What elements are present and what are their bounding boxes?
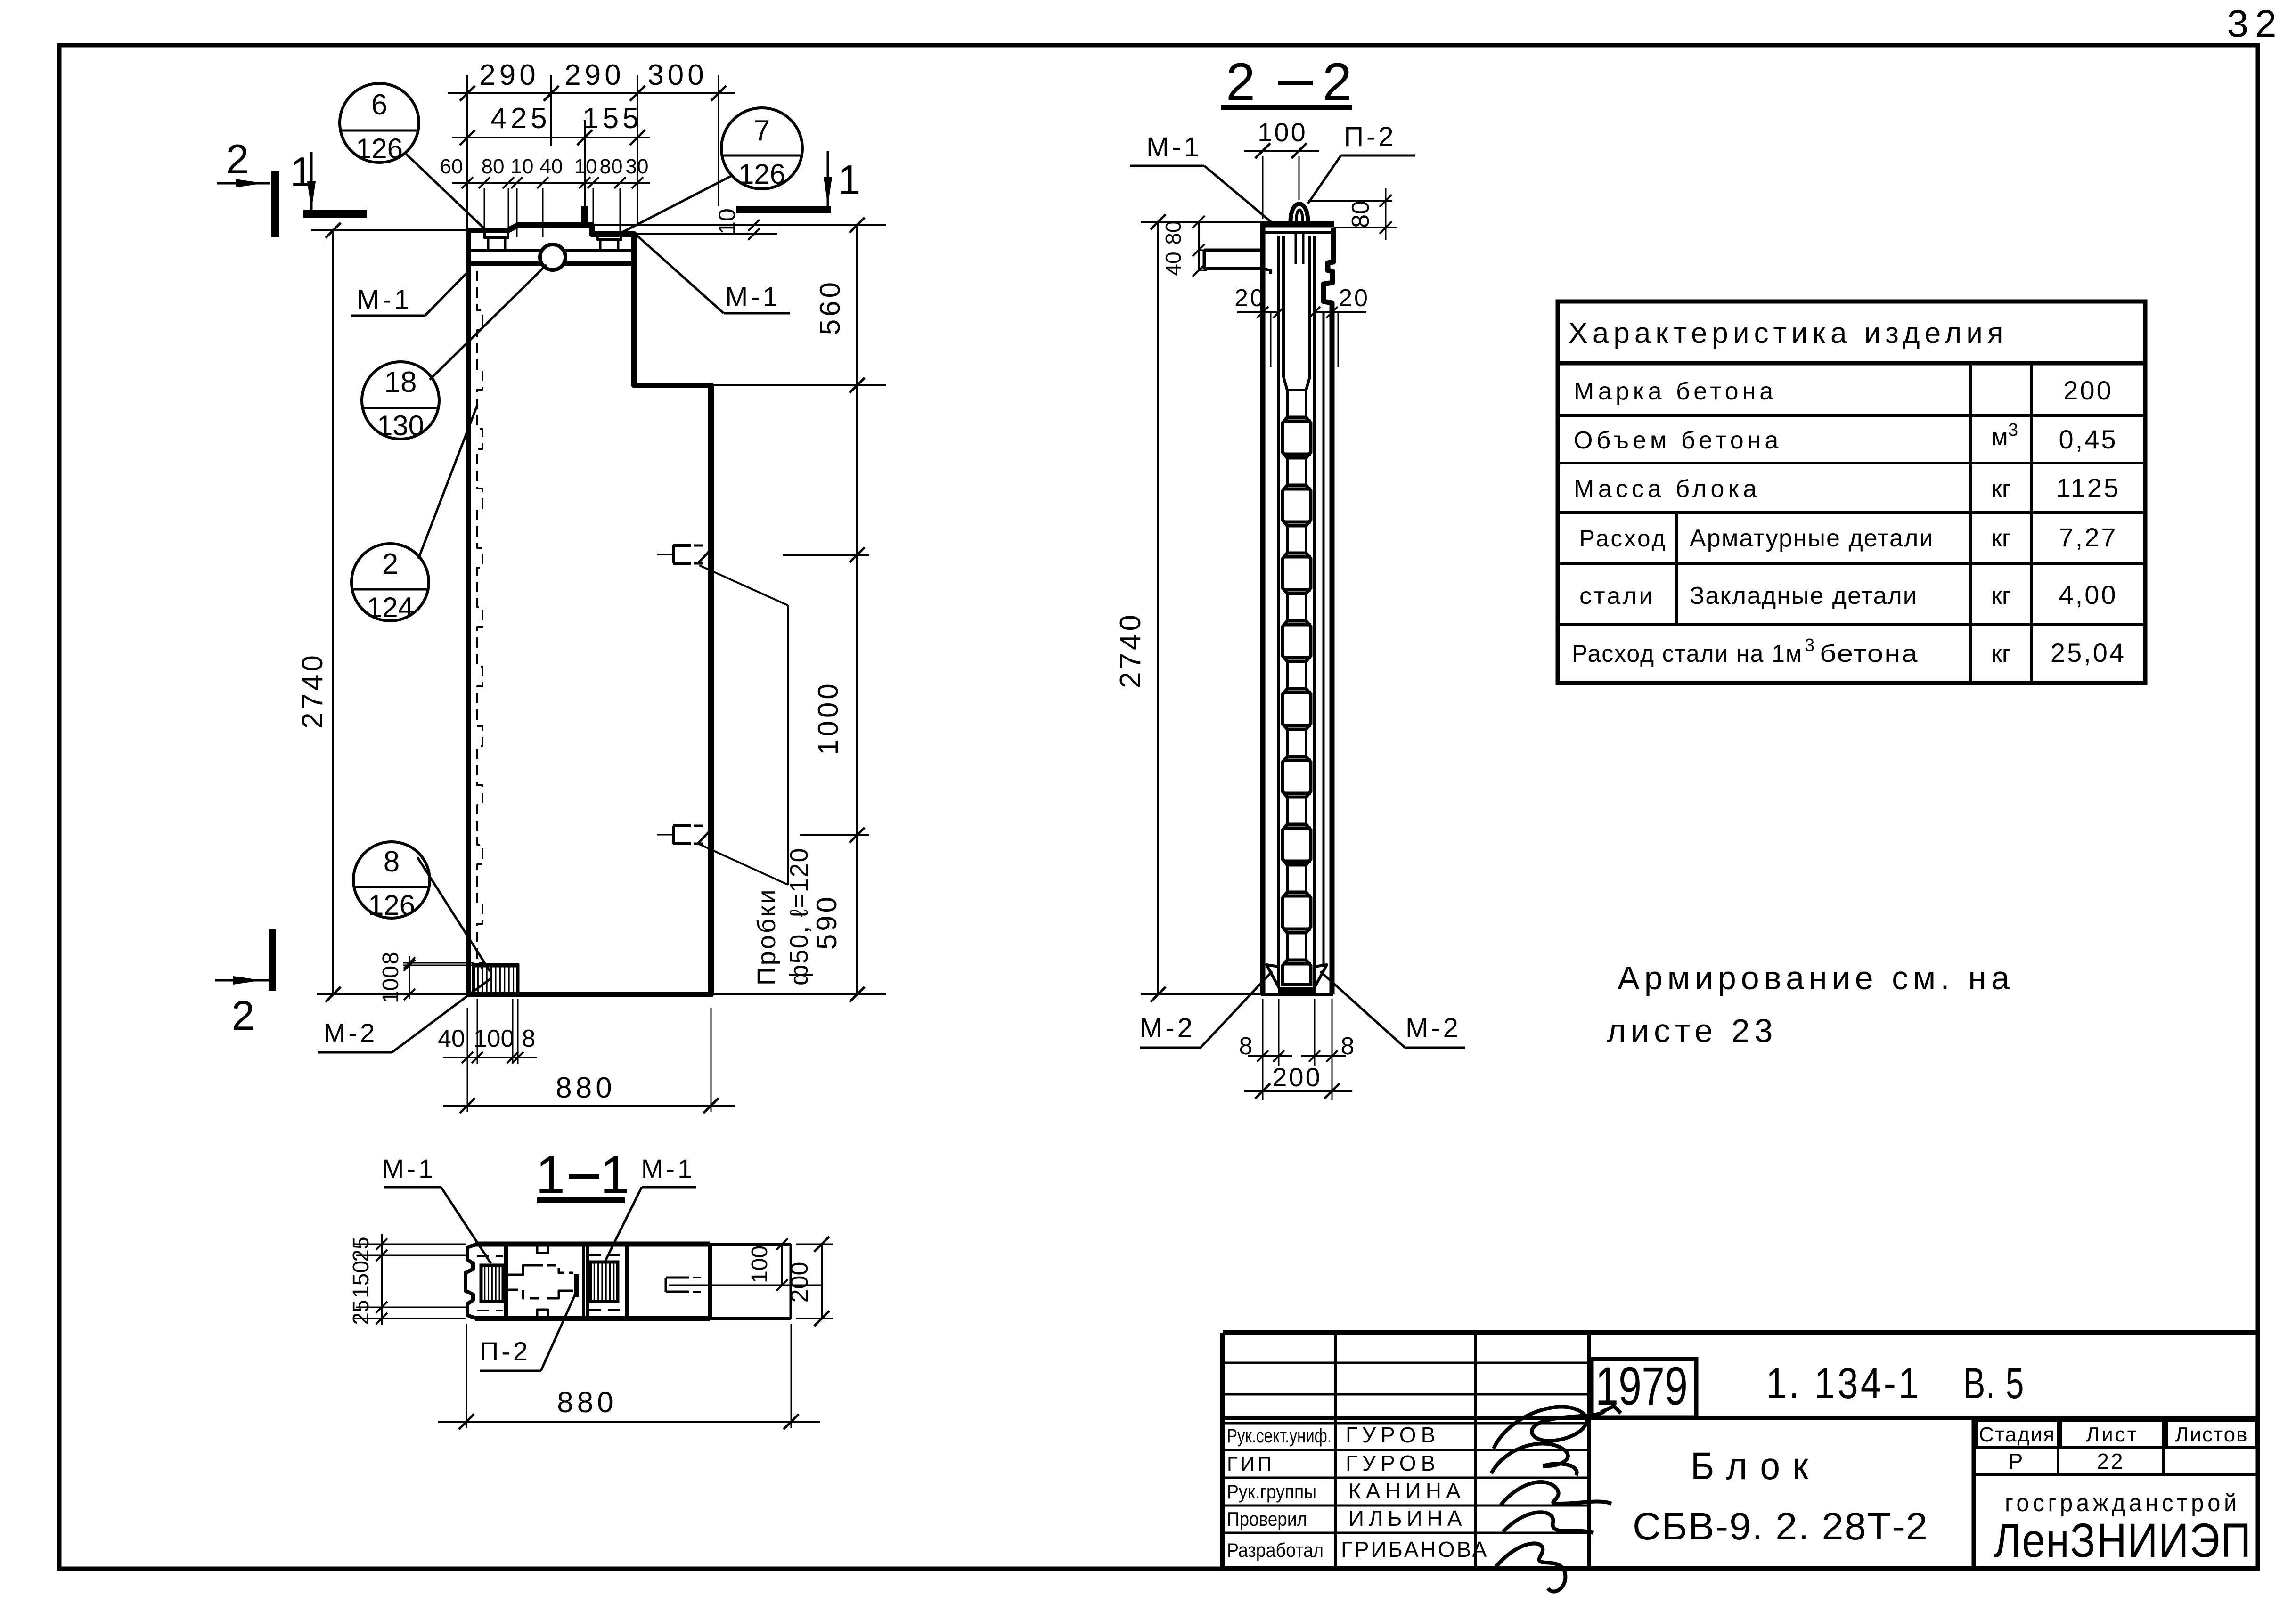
svg-text:Масса блока: Масса блока	[1574, 475, 1760, 503]
svg-text:880: 880	[556, 1072, 615, 1104]
svg-text:ГИП: ГИП	[1227, 1453, 1275, 1475]
svg-text:Лист: Лист	[2086, 1423, 2139, 1446]
front view: lifting loop circle	[540, 244, 565, 270]
svg-text:200: 200	[1272, 1062, 1322, 1092]
section 2-2: side arm (M-1 console)	[1204, 249, 1263, 252]
title block column line labels/names	[1334, 1333, 1337, 1569]
svg-text:20: 20	[1339, 285, 1370, 312]
section 2-2: column inner right line	[1313, 236, 1316, 966]
table column line units	[1969, 363, 1972, 683]
svg-text:кг: кг	[1991, 475, 2011, 503]
svg-text:8: 8	[378, 952, 403, 965]
section 2-2: bottom cap (dark)	[1278, 987, 1316, 994]
section 1-1: inner divider lines	[504, 1246, 508, 1318]
section 1-1: dashes around right box	[589, 1254, 625, 1256]
svg-text:Блок: Блок	[1691, 1445, 1821, 1488]
svg-text:Марка бетона: Марка бетона	[1574, 378, 1777, 405]
section 2-2: bottom line	[1261, 993, 1333, 996]
svg-text:6: 6	[371, 89, 387, 121]
title block left edge	[1220, 1333, 1225, 1569]
section 1-1: top notch square	[537, 1244, 548, 1253]
svg-text:30: 30	[626, 155, 649, 178]
section 2-2 dims 20/20 walls	[1237, 311, 1280, 313]
svg-text:ГУРОВ: ГУРОВ	[1346, 1423, 1440, 1447]
svg-text:ф50, ℓ=120: ф50, ℓ=120	[785, 847, 813, 985]
front view: block outline	[468, 225, 711, 994]
section 2-2: top cap flange	[1262, 221, 1334, 228]
section 1-1 title underline	[537, 1197, 625, 1203]
svg-text:7: 7	[754, 114, 770, 147]
title block thick separator under 1979 row	[1223, 1416, 2258, 1420]
svg-text:124: 124	[367, 592, 414, 623]
svg-text:СБВ-9. 2. 28Т-2: СБВ-9. 2. 28Т-2	[1633, 1505, 1928, 1548]
svg-text:Рук.группы: Рук.группы	[1227, 1481, 1316, 1503]
svg-text:60: 60	[440, 155, 463, 178]
svg-text:1125: 1125	[2056, 473, 2120, 503]
svg-text:2: 2	[226, 136, 249, 182]
section marker 1 top-left: arrow line	[310, 152, 313, 210]
svg-text:П-2: П-2	[480, 1336, 531, 1366]
svg-text:2: 2	[1226, 52, 1255, 111]
svg-text:1979: 1979	[1595, 1356, 1688, 1416]
svg-text:126: 126	[738, 158, 785, 190]
svg-text:В. 5: В. 5	[1963, 1359, 2025, 1408]
front view: anchor hooks under slots	[487, 238, 490, 250]
front view: plug socket upper on right edge	[673, 544, 691, 547]
right dimension column 560/1000/590	[856, 225, 858, 994]
svg-text:П-2: П-2	[1344, 122, 1396, 152]
dim row 60/80/10/40/10/80/30	[452, 182, 650, 184]
svg-text:кг: кг	[1991, 640, 2011, 668]
svg-text:560: 560	[814, 279, 846, 335]
front view: dashed key joint line	[477, 271, 482, 968]
table column line values	[2030, 363, 2033, 683]
svg-text:80: 80	[600, 155, 623, 178]
svg-text:200: 200	[2063, 375, 2113, 405]
svg-text:880: 880	[557, 1386, 617, 1419]
svg-text:126: 126	[356, 133, 403, 164]
svg-text:Расход стали на 1м: Расход стали на 1м	[1572, 640, 1803, 668]
section 2-2: column left wall	[1260, 221, 1266, 994]
svg-text:Характеристика изделия: Характеристика изделия	[1569, 317, 2008, 350]
title block values row line	[1974, 1473, 2258, 1476]
section 2-2 dim 200 bottom	[1244, 1090, 1352, 1092]
section 1-1 dims 25/150/25 left	[381, 1234, 383, 1325]
title block column line signatures right	[1587, 1333, 1591, 1569]
title block column line names/signatures	[1474, 1333, 1477, 1569]
title block bottom border	[1223, 1566, 2258, 1571]
svg-text:1: 1	[838, 156, 861, 203]
svg-text:2: 2	[232, 992, 255, 1039]
section marker 2 bottom-left: arrow line	[215, 979, 269, 982]
svg-text:3: 3	[1805, 635, 1814, 655]
svg-text:300: 300	[647, 59, 707, 91]
section 2-2 dim 80 right of loop	[1308, 200, 1392, 202]
svg-text:М-1: М-1	[641, 1154, 695, 1183]
svg-text:Объем бетона: Объем бетона	[1574, 427, 1782, 454]
section 1-1: right M-1 hatched box	[590, 1262, 618, 1302]
title block small row lines top-left	[1223, 1362, 1589, 1364]
front view: top-left M-1 slot	[485, 231, 508, 238]
section 2-2: loop anchor tube	[1282, 236, 1285, 377]
svg-text:М-2: М-2	[324, 1018, 377, 1048]
svg-text:40: 40	[540, 155, 563, 178]
title block signatures scribble	[1494, 1406, 1621, 1449]
svg-text:130: 130	[377, 410, 424, 441]
svg-text:3: 3	[2008, 420, 2018, 440]
callout circle 8/126	[353, 842, 430, 918]
section 1-1: dashes around left box	[477, 1255, 503, 1257]
svg-text:ГУРОВ: ГУРОВ	[1346, 1451, 1440, 1475]
title block big cell divider vertical	[1972, 1418, 1976, 1569]
svg-text:2740: 2740	[296, 652, 329, 729]
svg-text:8: 8	[522, 1025, 536, 1052]
section 2-2: keyed core ladder	[1287, 390, 1306, 417]
title block staff section top line	[1223, 1422, 1589, 1425]
svg-text:20: 20	[1234, 285, 1266, 312]
section marker 2 bottom-left: thick bar	[269, 929, 276, 991]
svg-text:Проверил: Проверил	[1227, 1508, 1307, 1530]
section marker 1 top-right: arrow line	[827, 151, 829, 206]
svg-text:кг: кг	[1991, 525, 2011, 552]
svg-text:м: м	[1991, 423, 2008, 451]
svg-text:Арматурные детали: Арматурные детали	[1690, 525, 1934, 552]
section 2-2 dim 2740	[1157, 222, 1159, 994]
svg-text:25: 25	[349, 1300, 374, 1325]
front view: P-2 pin (black) on top	[581, 206, 588, 227]
svg-text:ЛенЗНИИЭП: ЛенЗНИИЭП	[1994, 1514, 2252, 1567]
svg-text:Пробки: Пробки	[752, 887, 781, 985]
svg-text:10: 10	[511, 155, 534, 178]
svg-text:Стадия: Стадия	[1979, 1423, 2055, 1446]
svg-text:25: 25	[349, 1237, 374, 1262]
section marker 2 top-left: arrow line	[217, 182, 270, 185]
svg-text:стали: стали	[1579, 583, 1655, 609]
svg-text:32: 32	[2227, 2, 2283, 45]
section 1-1 dim 880 bottom	[438, 1421, 820, 1423]
svg-text:155: 155	[582, 102, 642, 135]
svg-text:40: 40	[438, 1025, 465, 1052]
svg-text:Разработал: Разработал	[1227, 1539, 1324, 1561]
table header separator	[1558, 361, 2145, 366]
svg-text:10: 10	[714, 208, 740, 235]
section 1-1: bottom notch square	[537, 1310, 548, 1319]
section 1-1: right plain part	[710, 1243, 791, 1246]
svg-text:Расход: Расход	[1579, 525, 1667, 552]
svg-text:290: 290	[479, 59, 539, 91]
characteristics table outer box	[1558, 301, 2145, 683]
svg-text:25,04: 25,04	[2051, 638, 2126, 668]
svg-text:40: 40	[1161, 252, 1185, 276]
svg-text:М-1: М-1	[357, 285, 412, 315]
svg-text:госгражданстрой: госгражданстрой	[2005, 1490, 2240, 1517]
svg-text:1000: 1000	[812, 681, 844, 755]
svg-text:100: 100	[378, 966, 403, 1003]
svg-text:2: 2	[382, 548, 398, 580]
svg-text:М-2: М-2	[1140, 1013, 1195, 1043]
svg-text:200: 200	[786, 1262, 813, 1303]
svg-text:ИЛЬИНА: ИЛЬИНА	[1348, 1506, 1466, 1530]
svg-text:М-2: М-2	[1405, 1013, 1461, 1043]
callout circle 2/124	[351, 544, 429, 621]
svg-text:Р: Р	[2009, 1449, 2023, 1473]
svg-text:590: 590	[811, 894, 842, 950]
svg-text:8: 8	[1239, 1033, 1253, 1060]
svg-text:8: 8	[384, 846, 400, 878]
front view: plug socket lower on right edge	[673, 824, 691, 827]
section 2-2 dims 80/40 left	[1198, 222, 1200, 270]
front view: top-right M-1 slot	[598, 235, 621, 240]
section 1-1 dim 200 right	[821, 1244, 823, 1319]
section marker 1 top-left: thick bar	[303, 210, 367, 218]
svg-text:290: 290	[564, 59, 624, 91]
dim 880 bottom of front view	[443, 1105, 735, 1107]
dim row 290/290/300	[448, 92, 735, 94]
svg-text:100: 100	[747, 1246, 772, 1283]
dims 100/8 left of M-2 box	[409, 956, 410, 999]
svg-text:18: 18	[384, 366, 417, 399]
left dim 2740 of front view	[332, 230, 334, 994]
svg-text:10: 10	[574, 155, 597, 178]
svg-text:22: 22	[2097, 1449, 2124, 1473]
dims 40/100/8 under M-2 box	[443, 1057, 537, 1058]
svg-text:80: 80	[1161, 220, 1185, 244]
section 2-2: column inner left line	[1277, 236, 1280, 966]
svg-text:1: 1	[536, 1145, 565, 1204]
svg-text:80: 80	[482, 155, 505, 178]
svg-text:8: 8	[1341, 1033, 1355, 1060]
section marker 1 top-right: thick bar	[736, 206, 831, 213]
section 2-2: bottom M-2 wedge right	[1315, 965, 1327, 987]
svg-text:М-1: М-1	[382, 1154, 436, 1183]
callout circle 7/126	[721, 108, 802, 189]
section 2-2 title underline	[1221, 105, 1352, 110]
front view: horizontal joint band upper line	[468, 249, 634, 252]
callout circle 18/130	[362, 362, 439, 439]
section 2-2: P-2 lifting loop	[1291, 204, 1308, 222]
section 2-2: column right wall with notches	[1324, 228, 1333, 994]
svg-text:80: 80	[1347, 201, 1374, 228]
svg-text:7,27: 7,27	[2059, 522, 2118, 552]
svg-text:425: 425	[490, 102, 550, 135]
section 2-2: bottom M-2 wedge left	[1266, 965, 1279, 987]
svg-text:М-1: М-1	[1146, 132, 1202, 163]
table row lines	[1558, 414, 2145, 417]
section 1-1: left M-1 hatched box	[481, 1265, 503, 1302]
svg-text:100: 100	[1258, 117, 1307, 147]
section 1-1: middle meander bottom	[508, 1290, 543, 1298]
svg-text:2: 2	[1323, 52, 1352, 111]
svg-text:0,45: 0,45	[2059, 424, 2118, 454]
section 1-1: middle meander top	[508, 1265, 543, 1275]
svg-text:126: 126	[368, 889, 415, 921]
svg-text:кг: кг	[1991, 582, 2011, 610]
section 2-2 dims 8/8 bottom	[1262, 999, 1264, 1100]
front view: M-2 embed hatched box at bottom	[474, 965, 518, 994]
svg-text:4,00: 4,00	[2059, 580, 2118, 610]
svg-text:100: 100	[474, 1025, 515, 1052]
svg-text:Листов: Листов	[2175, 1423, 2248, 1446]
svg-text:Закладные детали: Закладные детали	[1690, 582, 1918, 610]
dim 10 at top right of block	[592, 224, 886, 226]
section 1-1: plug socket in plan	[666, 1277, 689, 1279]
front view: horizontal joint band lower line	[468, 261, 634, 266]
title block stadia list listov header boxes	[1977, 1420, 2058, 1448]
svg-text:2740: 2740	[1114, 612, 1147, 688]
svg-text:КАНИНА: КАНИНА	[1348, 1479, 1465, 1503]
section marker 2 top-left: thick bar	[271, 171, 279, 237]
title block 1979 box	[1592, 1359, 1696, 1417]
svg-text:бетона: бетона	[1820, 640, 1919, 668]
title block outer top border	[1223, 1330, 2258, 1335]
section 1-1: bar outline with keyed left end	[466, 1244, 477, 1319]
callout circle 6/126	[340, 83, 419, 163]
table sub column rashod stali	[1675, 513, 1678, 625]
svg-text:листе 23: листе 23	[1607, 1012, 1777, 1049]
svg-text:Армирование см. на: Армирование см. на	[1618, 960, 2014, 996]
section 1-1: P-2 pin black bar	[574, 1274, 579, 1297]
dim row 425/155	[452, 137, 650, 138]
section 1-1 dim 100 right	[781, 1244, 783, 1285]
svg-text:М-1: М-1	[725, 282, 781, 312]
svg-text:1. 134-1: 1. 134-1	[1766, 1359, 1921, 1408]
section 2-2: inner right relief line	[1323, 311, 1325, 966]
section 2-2 dim 100 top	[1244, 150, 1319, 152]
svg-text:1: 1	[600, 1145, 629, 1204]
svg-text:ГРИБАНОВА: ГРИБАНОВА	[1341, 1537, 1488, 1562]
title block staff row lines	[1223, 1449, 1589, 1451]
svg-text:150: 150	[349, 1261, 374, 1298]
svg-text:Рук.сект.униф.: Рук.сект.униф.	[1227, 1425, 1332, 1447]
